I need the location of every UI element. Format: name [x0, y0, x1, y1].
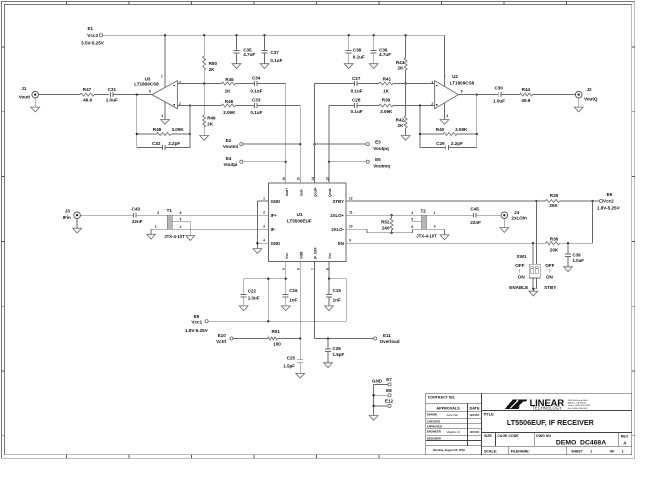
resistor R45 — [222, 77, 236, 93]
wire U1 pin8 Vcc — [328, 261, 330, 278]
svg-text:2K: 2K — [207, 122, 214, 127]
svg-text:T2: T2 — [421, 208, 427, 213]
svg-text:LT1809CS8: LT1809CS8 — [450, 81, 475, 86]
svg-text:Qout-: Qout- — [328, 188, 332, 197]
svg-text:LT5506EUF, IF RECEIVER: LT5506EUF, IF RECEIVER — [507, 418, 595, 427]
wire R40 row left — [420, 133, 443, 135]
svg-text:1.0uF: 1.0uF — [493, 99, 505, 104]
svg-text:Qout+: Qout+ — [314, 187, 318, 197]
svg-text:1nF: 1nF — [333, 297, 341, 302]
svg-text:1.5pF: 1.5pF — [333, 352, 345, 357]
svg-text:E6: E6 — [607, 192, 613, 197]
wire Vcc2 to R36 — [592, 201, 594, 243]
wire R44 to J2 — [533, 94, 576, 96]
wire T1 pin4 to U1 IF- — [172, 228, 268, 230]
wire C30 to R44 — [501, 94, 520, 96]
svg-text:6: 6 — [297, 268, 301, 270]
resistor R50 — [203, 35, 218, 83]
ground at R49 — [200, 136, 209, 141]
svg-text:E5: E5 — [375, 157, 381, 162]
node Vcc3/U3 junction — [164, 34, 166, 36]
wire E8 to ground bus — [374, 394, 388, 396]
capacitor C43 — [132, 206, 143, 224]
svg-text:SHEET: SHEET — [571, 449, 584, 453]
svg-text:13: 13 — [325, 177, 329, 181]
node E8 junction — [372, 394, 374, 396]
svg-text:7: 7 — [161, 75, 163, 79]
svg-text:DESIGNER: DESIGNER — [427, 436, 441, 440]
capacitor C16 — [283, 279, 298, 306]
svg-text:ON: ON — [518, 274, 526, 279]
capacitor C36 — [371, 35, 391, 63]
svg-text:1K: 1K — [383, 88, 390, 93]
wire SW1 to ground — [533, 278, 537, 291]
wire R39 to U2 pin2 — [393, 105, 435, 107]
wire T2 pin5 stub — [412, 221, 422, 223]
wire R40 row right — [457, 133, 477, 135]
wire R48 row left — [137, 133, 157, 135]
wire T2 pin1 to C45 — [427, 214, 474, 216]
svg-text:5: 5 — [282, 268, 286, 270]
svg-text:4: 4 — [180, 225, 182, 229]
svg-text:1: 1 — [263, 197, 265, 201]
svg-text:VdM: VdM — [299, 251, 303, 258]
node Vcc3/C37 junction — [263, 34, 265, 36]
svg-text:C22: C22 — [248, 289, 257, 294]
svg-text:Fax: (408) 434-0507: Fax: (408) 434-0507 — [568, 408, 589, 410]
svg-text:REV: REV — [621, 435, 629, 439]
svg-text:DATE: DATE — [469, 406, 480, 410]
connector J3 IFin — [63, 208, 81, 220]
wire E10 to R51 — [233, 338, 267, 340]
node R50/R49 divider tap — [203, 82, 205, 84]
svg-text:R49: R49 — [207, 115, 216, 120]
svg-text:C32: C32 — [152, 141, 161, 146]
svg-text:CAGE CODE: CAGE CODE — [497, 434, 519, 438]
ground at T1 primary — [147, 234, 156, 239]
op-amp U1 LT5506EUF body — [269, 183, 346, 261]
svg-text:2XLO+: 2XLO+ — [330, 213, 344, 218]
node EN/SW1 junction — [532, 242, 534, 244]
wire C15 row — [329, 278, 346, 280]
wire U1 pin1 GND stub — [257, 200, 268, 202]
svg-text:6: 6 — [411, 225, 413, 229]
svg-text:R47: R47 — [83, 87, 92, 92]
wire U1 pin12 STBY line — [346, 200, 537, 202]
svg-text:20K: 20K — [549, 203, 558, 208]
resistor R47 — [80, 87, 94, 103]
svg-text:1.8V-5.25V: 1.8V-5.25V — [597, 206, 621, 211]
wire C28 to R39 — [357, 105, 379, 107]
svg-text:22nF: 22nF — [132, 219, 143, 224]
svg-text:10: 10 — [349, 225, 353, 229]
capacitor C28 — [351, 98, 363, 114]
node pin5 junction — [285, 278, 287, 280]
svg-text:Vladimir D: Vladimir D — [446, 430, 459, 434]
node pin4 ground junction — [256, 242, 258, 244]
wire U1 pin16 (Iout+) — [285, 84, 287, 184]
node 2XLO-/R52 junction — [390, 232, 392, 234]
terminal E2 Voutmi — [223, 138, 243, 149]
resistor R48 — [153, 127, 185, 135]
svg-text:EN: EN — [338, 241, 344, 246]
wire R51 to U1 pin6 — [278, 338, 301, 340]
capacitor C30 — [493, 85, 505, 103]
svg-text:C25: C25 — [287, 355, 296, 360]
svg-text:Vcc: Vcc — [328, 253, 332, 259]
terminal E5 Voutmq — [366, 157, 390, 169]
capacitor C25 — [283, 339, 303, 374]
svg-text:OFF: OFF — [515, 263, 524, 268]
svg-text:7: 7 — [311, 268, 315, 270]
resistor R36 — [533, 236, 593, 252]
wire STBY to SW1 — [536, 201, 538, 264]
svg-text:SW1: SW1 — [517, 254, 527, 259]
svg-text:R42: R42 — [396, 117, 405, 122]
node pin6/C25 junction — [299, 337, 301, 339]
node SW1 ground junction — [532, 288, 534, 290]
wire U2 output to C30 — [458, 94, 498, 96]
svg-text:2K: 2K — [398, 123, 405, 128]
svg-text:C34: C34 — [252, 76, 261, 81]
wire EN to SW1 — [532, 243, 534, 264]
svg-text:ENABLE: ENABLE — [509, 285, 528, 290]
wire R41 to U2 pin3 — [393, 83, 435, 85]
node Vcc3/R50 junction — [203, 34, 205, 36]
svg-text:C15: C15 — [333, 288, 342, 293]
ground at C39 — [564, 267, 573, 272]
node R40 left junction — [419, 133, 421, 135]
svg-text:ON: ON — [546, 274, 554, 279]
wire U1 pin4 GND stub — [257, 242, 268, 244]
svg-text:4.7uF: 4.7uF — [243, 52, 255, 57]
svg-text:3.09K: 3.09K — [223, 110, 236, 115]
wire U3 feedback right vertical — [189, 106, 191, 148]
svg-text:1: 1 — [590, 449, 592, 453]
svg-text:E2: E2 — [226, 138, 232, 143]
svg-text:3: 3 — [263, 225, 265, 229]
svg-text:1.0uF: 1.0uF — [573, 258, 585, 263]
node R35/E6 junction — [591, 200, 593, 202]
svg-text:E8: E8 — [386, 388, 392, 393]
wire J3 to C43 — [80, 214, 133, 216]
svg-text:E3: E3 — [375, 139, 381, 144]
svg-text:Vcc: Vcc — [285, 253, 289, 259]
node U3 inverting input junction — [189, 104, 191, 106]
svg-text:6: 6 — [149, 90, 151, 94]
svg-text:E11: E11 — [383, 333, 391, 338]
ground at R42 — [401, 136, 410, 141]
svg-text:APPROVED: APPROVED — [427, 424, 442, 428]
resistor R42 — [396, 84, 407, 136]
svg-text:100: 100 — [273, 342, 281, 347]
terminal E12 — [385, 399, 394, 408]
svg-text:OFF: OFF — [545, 263, 554, 268]
svg-text:Phone: (408) 432-1900: Phone: (408) 432-1900 — [568, 405, 591, 407]
wire GND bus vertical — [373, 384, 375, 415]
wire E7 to ground bus — [374, 383, 388, 385]
svg-text:Iout+: Iout+ — [285, 188, 289, 196]
ground at C25 — [296, 373, 305, 378]
svg-text:C29: C29 — [436, 141, 445, 146]
node Vcc3/R43 junction — [404, 34, 406, 36]
svg-text:1nF: 1nF — [289, 297, 297, 302]
resistor R39 — [379, 98, 393, 114]
svg-text:R45: R45 — [225, 77, 234, 82]
ground at T2 primary — [440, 235, 449, 240]
node R43/R42 divider tap — [404, 82, 406, 84]
svg-text:3: 3 — [157, 211, 159, 215]
drawing number row — [482, 433, 632, 447]
svg-text:49.9: 49.9 — [83, 98, 92, 103]
terminal E6 Vcc2 — [593, 192, 621, 210]
ground at C22 — [239, 306, 248, 311]
svg-text:3: 3 — [179, 81, 181, 85]
node R40 right junction — [476, 133, 478, 135]
svg-text:APPROVALS: APPROVALS — [436, 406, 460, 410]
svg-text:IFin: IFin — [63, 215, 71, 220]
svg-text:E9: E9 — [194, 314, 200, 319]
wire E5 to U1 pin13 — [329, 161, 366, 163]
svg-text:2.2pF: 2.2pF — [451, 141, 463, 146]
svg-text:3: 3 — [431, 81, 433, 85]
node E3/pin14 junction — [313, 143, 315, 145]
svg-text:STBY: STBY — [544, 285, 556, 290]
svg-text:FILENAME:: FILENAME: — [511, 450, 530, 454]
wire U3 pin7 supply — [164, 35, 166, 87]
svg-text:R41: R41 — [383, 77, 392, 82]
wire U1 pin7 IF_DET — [314, 261, 316, 338]
svg-text:LT5506EUF: LT5506EUF — [287, 218, 312, 223]
title text — [483, 412, 595, 427]
ground at C16 — [281, 306, 290, 311]
title block — [426, 393, 632, 454]
svg-text:1: 1 — [434, 211, 436, 215]
capacitor C15 — [326, 279, 341, 306]
resistor R40 — [436, 127, 468, 135]
svg-text:1: 1 — [155, 224, 157, 228]
svg-text:2: 2 — [431, 102, 433, 106]
svg-text:C37: C37 — [270, 50, 279, 55]
node E4/pin16 junction — [285, 161, 287, 163]
svg-text:T1: T1 — [167, 208, 173, 213]
wire U1 pin14 to C27 — [315, 83, 355, 85]
capacitor C38 — [346, 35, 365, 63]
svg-text:1.5pF: 1.5pF — [283, 364, 295, 369]
svg-text:JTX-4-10T: JTX-4-10T — [164, 234, 185, 239]
wire C33 to U1 pin15 — [257, 105, 300, 107]
svg-text:E10: E10 — [218, 333, 227, 338]
wire U1 pin5 Vcc — [285, 261, 287, 278]
capacitor C37 — [262, 35, 283, 63]
terminal E8 — [386, 388, 392, 397]
ground at J1 — [31, 98, 40, 112]
ground at GND bus — [369, 416, 378, 421]
svg-text:4: 4 — [446, 114, 448, 118]
capacitor C39 — [565, 243, 584, 267]
ground at J2 — [574, 98, 583, 112]
svg-text:E1: E1 — [87, 26, 93, 31]
svg-text:Voutpq: Voutpq — [373, 146, 389, 151]
wire Vcc3 rail — [103, 34, 445, 36]
svg-text:Voutmq: Voutmq — [373, 163, 390, 168]
wire C22 row — [244, 279, 286, 322]
svg-text:2K: 2K — [209, 67, 216, 72]
svg-text:Overload: Overload — [380, 339, 400, 344]
svg-text:R43: R43 — [396, 60, 405, 65]
svg-text:R40: R40 — [436, 127, 445, 132]
scale/sheet row — [482, 446, 632, 454]
svg-text:10/15/01: 10/15/01 — [470, 414, 480, 417]
svg-text:20K: 20K — [550, 247, 559, 252]
wire U1 pin13 (Qout-) — [328, 106, 330, 184]
svg-text:E4: E4 — [226, 156, 232, 161]
node 2XLO+/R52 junction — [390, 214, 392, 216]
svg-text:1630 McCarthy Blvd.: 1630 McCarthy Blvd. — [568, 399, 589, 402]
svg-text:3.09K: 3.09K — [171, 127, 184, 132]
resistor R44 — [520, 87, 533, 103]
capacitor C35 — [234, 35, 256, 63]
node R48 left junction — [136, 133, 138, 135]
svg-text:0.1uF: 0.1uF — [351, 88, 363, 93]
node Vcc3/C36 junction — [373, 34, 375, 36]
svg-text:C45: C45 — [470, 207, 479, 212]
wire T1 pin5 center tap — [172, 222, 190, 236]
capacitor C33 — [250, 98, 262, 115]
svg-text:1.0uF: 1.0uF — [106, 98, 118, 103]
svg-text:1: 1 — [622, 449, 624, 453]
svg-text:C38: C38 — [353, 48, 362, 53]
ground at C37 — [260, 64, 269, 69]
svg-text:J2: J2 — [586, 87, 592, 92]
terminal E10 Vctrl — [216, 333, 233, 344]
svg-text:2.2pF: 2.2pF — [168, 141, 180, 146]
svg-text:R50: R50 — [209, 61, 218, 66]
logo Linear Technology — [505, 398, 591, 411]
svg-text:4.7uF: 4.7uF — [379, 52, 391, 57]
svg-text:2XLO-: 2XLO- — [331, 227, 344, 232]
resistor R49 — [203, 84, 216, 136]
resistor R46 — [222, 99, 237, 115]
svg-text:GND: GND — [372, 378, 383, 383]
node STBY/SW1 junction — [535, 200, 537, 202]
node Vcc1/C22 junction — [267, 320, 269, 322]
svg-text:DWG NO: DWG NO — [536, 434, 551, 438]
wire U2 feedback left vertical — [419, 106, 421, 148]
wire T1 pin1 to ground — [151, 229, 167, 234]
capacitor C34 — [250, 76, 262, 94]
svg-text:IF-: IF- — [271, 227, 277, 232]
svg-text:JTX-4-10T: JTX-4-10T — [416, 233, 437, 238]
svg-text:Vctrl: Vctrl — [216, 339, 226, 344]
wire C45 to J4 — [476, 214, 501, 216]
transformer T1 JTX-4-10T — [155, 208, 185, 239]
wire U1 pin11 2XLO+ line — [346, 214, 422, 216]
svg-text:0.1uF: 0.1uF — [351, 109, 363, 114]
ground at U2 pin4 — [440, 103, 449, 124]
terminal E3 Voutpq — [366, 139, 389, 151]
wire E12 to ground bus — [374, 405, 388, 407]
svg-text:6: 6 — [461, 90, 463, 94]
node E2/pin15 junction — [299, 143, 301, 145]
capacitor C26 — [325, 339, 345, 363]
svg-text:C28: C28 — [352, 98, 361, 103]
svg-text:1.0uF: 1.0uF — [248, 295, 260, 300]
capacitor C29 — [420, 141, 477, 150]
terminal E4 Voutpi — [224, 156, 243, 167]
svg-text:1K: 1K — [225, 88, 232, 93]
node C26 junction — [327, 337, 329, 339]
svg-text:VoutI: VoutI — [19, 94, 30, 99]
node Vcc3/C38 junction — [348, 34, 350, 36]
op-amp U3 LT1809CS8 — [134, 75, 181, 118]
svg-text:J3: J3 — [65, 208, 71, 213]
wire R47 to C31 — [94, 94, 109, 96]
wire C27 to R41 — [357, 83, 379, 85]
svg-text:3.09K: 3.09K — [455, 127, 468, 132]
svg-text:C43: C43 — [132, 206, 141, 211]
svg-text:CONTRACT NO.: CONTRACT NO. — [428, 395, 456, 399]
svg-text:Voutmi: Voutmi — [223, 144, 238, 149]
capacitor C32 — [137, 141, 190, 150]
svg-text:14: 14 — [311, 177, 315, 181]
svg-text:TECHNOLOGY: TECHNOLOGY — [532, 406, 562, 411]
terminal E1 Vcc3 — [81, 26, 105, 46]
svg-text:E7: E7 — [386, 377, 392, 382]
svg-text:GND: GND — [271, 199, 281, 204]
ground at C15 — [325, 306, 334, 311]
ground at C36 — [369, 64, 378, 69]
svg-text:R35: R35 — [550, 193, 559, 198]
wire U1 pin10 2XLO- jog — [346, 229, 422, 233]
svg-text:R51: R51 — [271, 329, 280, 334]
node Vcc3/C35 junction — [235, 34, 237, 36]
svg-text:2K: 2K — [398, 66, 405, 71]
svg-text:0.1uF: 0.1uF — [250, 88, 262, 93]
svg-text:LT1809CS8: LT1809CS8 — [134, 82, 159, 87]
capacitor C31 — [106, 87, 118, 103]
svg-text:5: 5 — [180, 218, 182, 222]
wire pin1-pin4 ground link — [256, 201, 258, 249]
svg-text:10/15/01: 10/15/01 — [470, 431, 480, 434]
resistor R52 — [381, 215, 393, 233]
svg-text:R44: R44 — [522, 87, 531, 92]
svg-text:ENGINEER: ENGINEER — [427, 430, 441, 434]
svg-text:5: 5 — [411, 218, 413, 222]
svg-text:0.1uF: 0.1uF — [270, 58, 282, 63]
resistor R41 — [379, 77, 393, 94]
svg-text:3.09K: 3.09K — [380, 109, 393, 114]
svg-text:R52: R52 — [381, 220, 390, 225]
ground at C35 — [232, 64, 241, 69]
svg-text:22nF: 22nF — [470, 220, 481, 225]
svg-text:Vcc1: Vcc1 — [191, 320, 202, 325]
wire U3 pin2 to R46 — [177, 105, 221, 107]
capacitor C27 — [351, 76, 363, 93]
wire U3 pin3 to R45 — [177, 83, 221, 85]
node pin8 junction — [328, 278, 330, 280]
node E12 junction — [372, 405, 374, 407]
svg-text:U2: U2 — [452, 74, 458, 79]
ground at C26 — [324, 363, 333, 368]
resistor R43 — [396, 35, 407, 83]
svg-text:SIZE: SIZE — [484, 434, 492, 438]
svg-text:3.5V-5.25V: 3.5V-5.25V — [81, 41, 105, 46]
wire E4 to U1 pin16 — [243, 161, 286, 163]
ground at J4 — [500, 219, 509, 233]
svg-text:E12: E12 — [385, 399, 394, 404]
wire U1 pin13 to C28 — [329, 105, 355, 107]
